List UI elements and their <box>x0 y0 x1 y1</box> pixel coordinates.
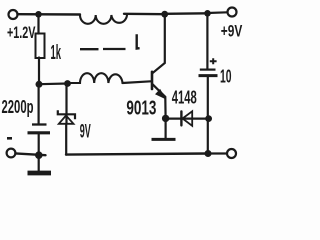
node junction J1 <box>35 11 42 18</box>
terminal bottom-right <box>227 149 236 158</box>
terminal negative input <box>7 149 16 158</box>
wire J2 to J3 <box>39 82 68 85</box>
wire bottom-left rail <box>16 153 46 155</box>
node junction J6 <box>204 10 211 17</box>
emitter ground bar <box>152 138 176 141</box>
terminal +1.2V input <box>9 10 18 19</box>
svg-text:1k: 1k <box>51 42 62 64</box>
inductor L primary winding <box>80 15 127 24</box>
label L <box>137 34 140 48</box>
node junction J3 <box>64 80 71 87</box>
transistor Q1 9013 base bar <box>151 72 154 89</box>
capacitor C2 top lead <box>206 14 208 69</box>
diode D2 triangle <box>183 111 193 126</box>
inductor L secondary winding <box>71 73 123 83</box>
wire J8 to terminal <box>208 152 227 154</box>
node junction J4 <box>35 151 43 159</box>
wire J5 to J6 <box>165 12 208 15</box>
svg-text:9V: 9V <box>80 120 91 142</box>
wire R1 to J2 <box>38 58 40 85</box>
zener D1 triangle <box>59 116 74 124</box>
capacitor C1 bottom lead <box>38 134 40 155</box>
diode D2 right lead <box>192 117 208 119</box>
zener D1 9V cathode bar <box>58 110 75 119</box>
zener lead from J3 <box>65 84 68 155</box>
bottom rail right segment <box>66 154 208 155</box>
wire L2 to base <box>123 81 151 83</box>
node junction J2 <box>36 81 43 88</box>
transistor Q1 emitter lead <box>153 84 166 118</box>
diode D2 4148 left lead <box>166 117 193 119</box>
ground stem <box>38 155 40 171</box>
svg-text:10: 10 <box>220 67 232 87</box>
wire J6 to +9V terminal <box>208 11 228 14</box>
capacitor C2 plates <box>200 68 216 70</box>
inductor core dashes <box>80 48 99 50</box>
diode D2 cathode bar <box>180 111 182 125</box>
svg-text:9013: 9013 <box>126 98 156 120</box>
terminal +9V output <box>228 8 237 17</box>
svg-text:2200p: 2200p <box>2 96 34 117</box>
capacitor C2 plus sign <box>210 58 217 64</box>
capacitor C1 2200p top lead <box>37 84 39 123</box>
svg-text:+1.2V: +1.2V <box>7 24 36 42</box>
node junction J7 <box>205 115 212 122</box>
transistor Q1 collector lead <box>152 14 164 73</box>
capacitor C1 2200p plates <box>32 123 47 125</box>
transistor Q1 emitter arrow <box>156 90 164 98</box>
resistor R1 1k <box>36 34 45 59</box>
capacitor C2 bottom lead <box>207 77 209 154</box>
wire L1 to J5 <box>124 13 165 16</box>
emitter ground stem <box>165 118 167 138</box>
node junction J8 <box>205 150 212 157</box>
wire J1 down to R1 <box>37 14 39 33</box>
minus label <box>7 137 12 140</box>
svg-text:+9V: +9V <box>221 23 243 41</box>
node junction J9 emitter <box>162 115 169 122</box>
ground bar <box>28 171 52 176</box>
node junction J5 collector <box>161 11 168 18</box>
svg-text:4148: 4148 <box>172 87 197 107</box>
wire top-left to junction <box>18 13 81 16</box>
